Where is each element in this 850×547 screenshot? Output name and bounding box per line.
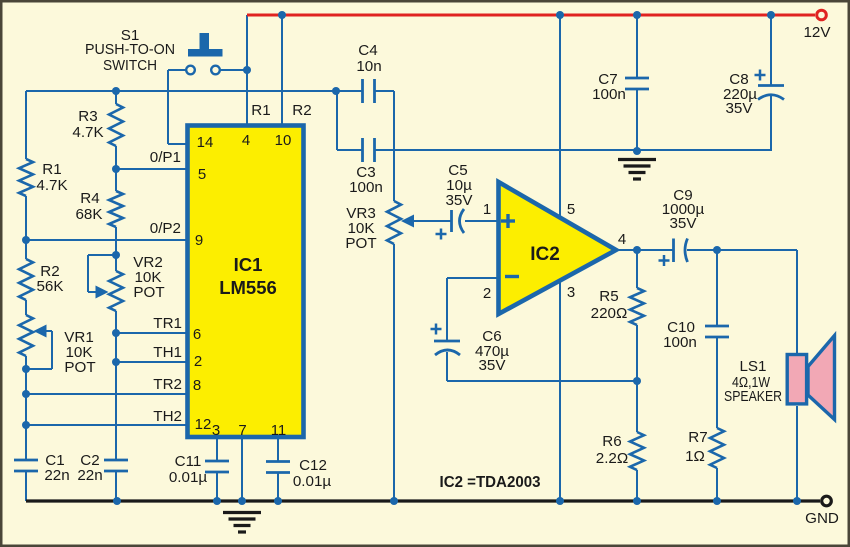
wire R6 to ground x637	[636, 470, 638, 501]
wire R1-top net vertical x26	[25, 91, 27, 159]
svg-text:TR1: TR1	[153, 315, 182, 332]
junction (242,501)	[238, 497, 246, 505]
svg-text:100n: 100n	[592, 86, 626, 103]
wire top net y91	[26, 90, 362, 92]
wire feedback y381	[447, 380, 637, 382]
junction (637,501)	[633, 497, 641, 505]
junction (116,362)	[112, 358, 120, 366]
wire C6 bottom to feedback	[446, 352, 448, 381]
junction (560,501)	[556, 497, 564, 505]
svg-text:11: 11	[271, 422, 287, 439]
wire C3 branch x337	[336, 91, 338, 150]
svg-text:5: 5	[567, 201, 575, 218]
potentiometer VR1	[19, 315, 33, 356]
op-amp minus input	[505, 275, 519, 278]
wire 0/P1 pin5	[116, 168, 187, 170]
svg-text:R1: R1	[42, 161, 61, 178]
op-amp plus input	[501, 219, 515, 222]
svg-text:35V: 35V	[725, 100, 753, 117]
junction (717,501)	[713, 497, 721, 505]
junction (771,15)	[767, 11, 775, 19]
junction (394,501)	[390, 497, 398, 505]
svg-text:3: 3	[567, 284, 575, 301]
svg-text:C4: C4	[358, 42, 377, 59]
svg-text:100n: 100n	[663, 334, 697, 351]
wire switch-right to junction	[220, 69, 247, 71]
wire speaker to ground x797	[796, 406, 798, 501]
wire TH1 pin2	[116, 361, 187, 363]
junction (116,91)	[112, 87, 120, 95]
resistor R1	[19, 159, 33, 196]
wire C11 to ground	[216, 471, 218, 501]
svg-text:22n: 22n	[77, 467, 102, 484]
wire VR1-bottom x26	[25, 356, 27, 460]
ground rail	[26, 499, 820, 502]
svg-text:1Ω: 1Ω	[685, 448, 705, 465]
svg-text:R2: R2	[292, 102, 311, 119]
wire IC2 pin3 x560	[559, 282, 561, 501]
junction (637,15)	[633, 11, 641, 19]
speaker LS1 horn	[808, 336, 835, 420]
wire R3-R4 link x116	[115, 146, 117, 191]
wire pin10 vertical x282	[281, 15, 283, 125]
svg-text:0.01µ: 0.01µ	[169, 469, 208, 486]
svg-text:5: 5	[198, 166, 206, 183]
capacitor C4	[361, 79, 364, 103]
IC U1 LM556 body	[188, 126, 304, 438]
capacitor C2	[104, 459, 128, 462]
wire TR1 pin6	[116, 332, 187, 334]
svg-text:TR2: TR2	[153, 376, 182, 393]
wire C9-C10 x717	[716, 250, 718, 327]
ground under IC1	[223, 511, 261, 514]
svg-text:12: 12	[195, 416, 212, 433]
svg-text:TH1: TH1	[153, 344, 182, 361]
svg-text:POT: POT	[64, 359, 95, 376]
wire VR2-bottom x116	[115, 311, 117, 460]
svg-text:GND: GND	[805, 510, 839, 527]
capacitor C5	[450, 210, 453, 232]
svg-text:4.7K: 4.7K	[72, 124, 103, 141]
svg-text:22n: 22n	[44, 467, 69, 484]
junction (26,369)	[22, 365, 30, 373]
svg-text:IC2: IC2	[530, 244, 560, 265]
svg-text:R3: R3	[78, 108, 97, 125]
potentiometer VR3	[387, 201, 401, 244]
wire C2-to-ground x116	[115, 471, 117, 501]
wire C10-R7 x717	[716, 336, 718, 428]
capacitor C10	[705, 325, 729, 328]
svg-text:0.01µ: 0.01µ	[293, 473, 332, 490]
wire R7-ground x717	[716, 468, 718, 501]
svg-text:C12: C12	[299, 457, 327, 474]
svg-text:LS1: LS1	[739, 358, 766, 375]
resistor R2	[19, 259, 33, 300]
svg-text:C11: C11	[175, 453, 202, 470]
svg-text:35V: 35V	[478, 357, 506, 374]
junction (560,15)	[556, 11, 564, 19]
svg-text:0/P1: 0/P1	[150, 149, 181, 166]
wire pin7 to ground	[241, 439, 243, 501]
svg-text:2: 2	[194, 353, 202, 370]
svg-text:0/P2: 0/P2	[150, 220, 181, 237]
wire TR2 pin8	[26, 393, 187, 395]
junction (217,501)	[213, 497, 221, 505]
capacitor C6	[434, 340, 460, 343]
junction (637,381)	[633, 377, 641, 385]
svg-text:7: 7	[238, 422, 246, 439]
12V terminal	[817, 10, 827, 20]
capacitor C11	[205, 460, 229, 463]
wire pin4 vertical x247	[246, 15, 248, 125]
svg-text:2: 2	[483, 285, 491, 302]
svg-text:SPEAKER: SPEAKER	[724, 388, 782, 405]
resistor R5	[630, 288, 644, 325]
svg-text:PUSH-TO-ON: PUSH-TO-ON	[85, 41, 175, 58]
switch S1 left contact	[186, 66, 195, 75]
junction (116,333)	[112, 329, 120, 337]
wire VR3-to-ground x394	[393, 244, 395, 501]
capacitor C9	[672, 239, 675, 263]
capacitor C1	[14, 459, 38, 462]
wire C8 bottom x771	[770, 96, 772, 151]
wire R5 to R6 x637	[636, 325, 638, 432]
resistor R3	[109, 104, 123, 146]
potentiometer VR2	[109, 271, 123, 311]
junction (247,70)	[243, 66, 251, 74]
svg-text:2.2Ω: 2.2Ω	[596, 450, 628, 467]
svg-text:IC1: IC1	[234, 254, 263, 275]
wire C4-VR3 vertical x394	[393, 91, 395, 201]
speaker LS1 body	[787, 355, 806, 404]
wire C3-to-ground-node y150	[375, 149, 771, 151]
svg-text:220Ω: 220Ω	[591, 305, 628, 322]
svg-text:R4: R4	[80, 190, 99, 207]
svg-text:IC2 =TDA2003: IC2 =TDA2003	[440, 474, 541, 491]
wire C5 to IC2 pin1	[465, 220, 499, 222]
junction (117,501)	[113, 497, 121, 505]
wire IC2 pin5 x560	[559, 15, 561, 218]
resistor R7	[710, 428, 724, 468]
wire net-A to R3 x116	[115, 91, 117, 104]
svg-text:TH2: TH2	[153, 408, 182, 425]
svg-text:10: 10	[275, 132, 292, 149]
switch S1 button	[200, 33, 210, 49]
junction (717,250)	[713, 246, 721, 254]
capacitor C8	[758, 84, 784, 87]
resistor R4	[109, 191, 123, 227]
wire IC2 output y250	[616, 249, 673, 251]
svg-text:3: 3	[212, 422, 220, 439]
svg-text:1: 1	[483, 201, 491, 218]
junction (26,425)	[22, 421, 30, 429]
junction (637,250)	[633, 246, 641, 254]
12V power rail	[247, 14, 815, 17]
svg-text:14: 14	[197, 134, 214, 151]
wire IC2 out to R5	[636, 250, 638, 288]
wire C12 to ground	[277, 472, 279, 501]
wire TH2 pin12	[26, 424, 187, 426]
wire to speaker top x797	[796, 250, 798, 353]
svg-text:R5: R5	[599, 288, 618, 305]
svg-text:4: 4	[242, 132, 250, 149]
svg-text:6: 6	[193, 326, 201, 343]
junction (797,501)	[793, 497, 801, 505]
wire pin11 to C12	[277, 439, 279, 462]
junction (116,255)	[112, 251, 120, 259]
wire C7 top x637	[636, 15, 638, 79]
capacitor C7	[625, 77, 649, 80]
svg-text:56K: 56K	[36, 278, 63, 295]
svg-text:LM556: LM556	[219, 277, 277, 298]
op-amp IC2	[499, 182, 617, 314]
wire VR3 wiper to C5	[413, 220, 451, 222]
resistor R6	[630, 432, 644, 470]
wire pin3 to C11	[216, 439, 218, 462]
wire C1-to-ground x26	[25, 471, 27, 501]
wire switch-left to pin14	[168, 69, 186, 71]
wire C7 bottom x637	[636, 88, 638, 151]
svg-text:35V: 35V	[445, 192, 473, 209]
svg-text:SWITCH: SWITCH	[103, 57, 157, 74]
junction (637,151)	[633, 147, 641, 155]
svg-text:POT: POT	[133, 284, 164, 301]
junction (116,169)	[112, 165, 120, 173]
ground near C7	[618, 158, 656, 161]
svg-text:R7: R7	[688, 429, 707, 446]
wire R1-R2 link x26	[25, 196, 27, 259]
capacitor C12	[266, 460, 290, 463]
svg-text:100n: 100n	[349, 179, 383, 196]
svg-text:R1: R1	[251, 102, 270, 119]
svg-text:35V: 35V	[669, 215, 697, 232]
GND terminal	[822, 496, 832, 506]
junction (26,394)	[22, 390, 30, 398]
svg-text:10n: 10n	[356, 58, 381, 75]
junction (278,501)	[274, 497, 282, 505]
svg-text:9: 9	[195, 232, 203, 249]
svg-text:POT: POT	[345, 235, 376, 252]
svg-text:4: 4	[618, 231, 626, 248]
svg-text:12V: 12V	[803, 24, 831, 41]
junction (282,15)	[278, 11, 286, 19]
wire IC2 pin2	[447, 277, 499, 279]
junction (336,91)	[332, 87, 340, 95]
wire C8 top x771	[770, 15, 772, 85]
junction (26,240)	[22, 236, 30, 244]
svg-text:8: 8	[193, 377, 201, 394]
wire R2-VR1 link x26	[25, 300, 27, 315]
switch S1 right contact	[211, 66, 220, 75]
svg-text:R6: R6	[602, 433, 621, 450]
svg-text:68K: 68K	[75, 206, 102, 223]
wire C9 out y250	[687, 249, 797, 251]
svg-text:4.7K: 4.7K	[36, 177, 67, 194]
capacitor C3	[361, 138, 364, 162]
wire R4-VR2 link x116	[115, 227, 117, 271]
wire 0/P2 pin9	[26, 239, 187, 241]
